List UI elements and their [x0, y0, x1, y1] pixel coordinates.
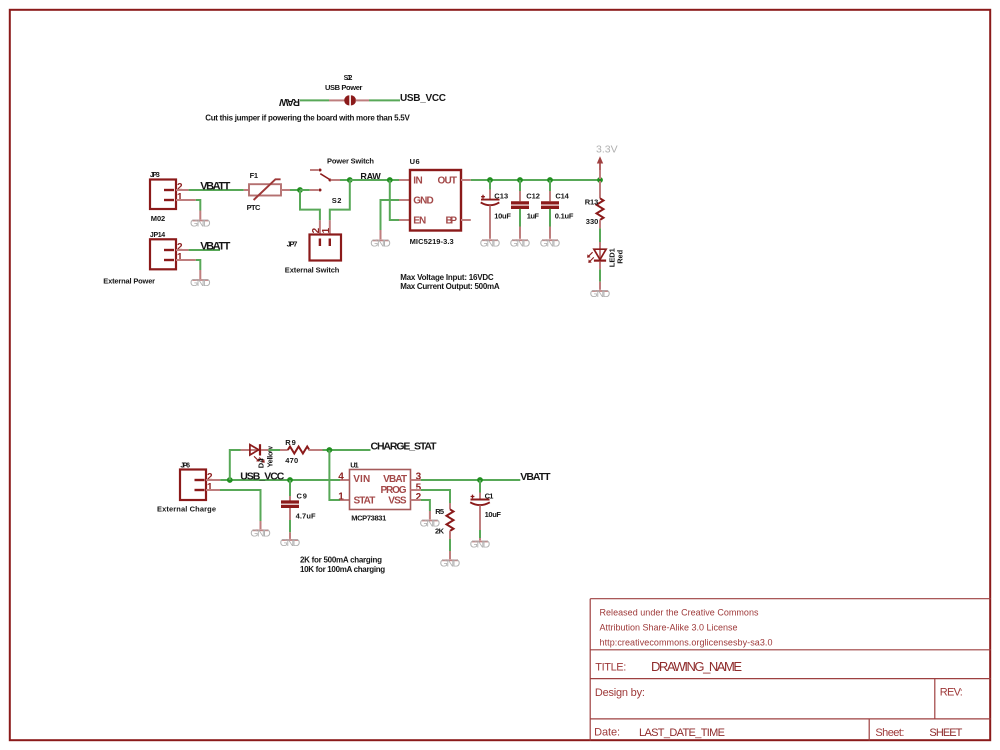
- wire VSS to gnd: [421, 500, 430, 511]
- svg-text:10K for 100mA charging: 10K for 100mA charging: [300, 565, 385, 574]
- pin JP7-1: [329, 220, 331, 234]
- svg-text:VSS: VSS: [388, 495, 407, 506]
- pin U6 GND: [399, 199, 410, 201]
- svg-text:330: 330: [586, 217, 599, 226]
- svg-text:4.7uF: 4.7uF: [296, 512, 316, 521]
- svg-text:JP7: JP7: [287, 240, 298, 249]
- junction C14: [547, 177, 553, 183]
- wire JP14-1 to gnd: [196, 260, 201, 270]
- svg-text:1: 1: [207, 482, 213, 493]
- wire VBATT stub: [189, 249, 220, 251]
- LED LED1: [587, 248, 624, 267]
- connector JP7: [285, 227, 341, 274]
- svg-text:470: 470: [285, 456, 298, 465]
- svg-text:JP3: JP3: [150, 172, 160, 179]
- svg-text:1: 1: [177, 252, 183, 263]
- connector JP6: [157, 462, 216, 513]
- capacitor C14: [541, 180, 574, 239]
- svg-text:VBATT: VBATT: [200, 240, 230, 252]
- svg-text:U6: U6: [410, 157, 420, 166]
- wire junction to JP7 pin1: [330, 180, 350, 220]
- svg-text:MIC5219-3.3: MIC5219-3.3: [410, 237, 454, 246]
- svg-text:MCP73831: MCP73831: [351, 513, 386, 522]
- svg-text:CHARGE_STAT: CHARGE_STAT: [371, 441, 438, 453]
- capacitor C12: [511, 180, 540, 239]
- wire R13 to LED1: [599, 228, 601, 242]
- jumper SJ2 pin 1: [329, 99, 345, 101]
- junction C12: [517, 177, 523, 183]
- ground C12: [510, 237, 531, 249]
- svg-text:Sheet:: Sheet:: [875, 727, 904, 739]
- svg-text:IN: IN: [413, 175, 423, 186]
- wire JP3-1 to gnd: [196, 200, 201, 211]
- wire VBATT out: [421, 479, 521, 481]
- switch S2: [310, 156, 375, 205]
- junction CHARGE_STAT: [327, 447, 333, 453]
- pin U6 OUT: [461, 179, 471, 181]
- svg-text:LAST_DATE_TIME: LAST_DATE_TIME: [639, 727, 725, 739]
- pin U6 EN: [399, 219, 410, 221]
- svg-text:C13: C13: [494, 192, 508, 201]
- wire RAW to SJ2: [300, 99, 329, 101]
- svg-text:RAW: RAW: [278, 96, 300, 107]
- svg-text:2K for 500mA charging: 2K for 500mA charging: [300, 555, 382, 564]
- wire down to STAT: [329, 450, 340, 500]
- pin U1 VSS stub: [411, 499, 421, 501]
- wire SJ2 to USB_VCC: [369, 99, 400, 101]
- svg-text:D4: D4: [257, 457, 266, 468]
- svg-text:1: 1: [338, 492, 344, 503]
- svg-text:USB_VCC: USB_VCC: [240, 470, 285, 482]
- ground JP6: [250, 527, 271, 539]
- svg-text:R13: R13: [585, 198, 599, 207]
- svg-text:3.3V: 3.3V: [596, 144, 618, 156]
- svg-text:0.1uF: 0.1uF: [555, 211, 574, 220]
- wire VBATT: [189, 189, 244, 191]
- svg-text:C1: C1: [485, 492, 494, 501]
- svg-text:External Power: External Power: [103, 276, 155, 285]
- capacitor C13: [481, 180, 512, 239]
- capacitor C1: [470, 480, 501, 540]
- svg-text:OUT: OUT: [438, 175, 458, 186]
- ground LED1: [590, 288, 611, 300]
- svg-text:Date:: Date:: [594, 727, 620, 739]
- pin U6 BP: [461, 219, 471, 221]
- pin JP7-2: [319, 220, 321, 234]
- svg-text:External Charge: External Charge: [157, 505, 216, 514]
- svg-text:DRAWING_NAME: DRAWING_NAME: [651, 659, 742, 674]
- fuse F1 PTC: [244, 171, 290, 212]
- ground C14: [540, 237, 561, 249]
- wire JP6-1 to gnd: [220, 490, 261, 521]
- svg-text:GND: GND: [413, 195, 434, 206]
- junction R13: [597, 177, 603, 183]
- svg-text:1uF: 1uF: [527, 211, 540, 220]
- ground JP14: [190, 277, 211, 289]
- pin U1 PROG stub: [411, 489, 421, 491]
- junction C9: [287, 477, 293, 483]
- svg-text:Attribution Share-Alike 3.0 Li: Attribution Share-Alike 3.0 License: [600, 623, 738, 633]
- svg-text:R9: R9: [285, 438, 296, 447]
- svg-text:External Switch: External Switch: [285, 266, 340, 275]
- wire junction to JP7 pin2: [300, 190, 320, 220]
- svg-text:U1: U1: [350, 461, 358, 470]
- svg-text:USB Power: USB Power: [325, 83, 362, 92]
- svg-text:10uF: 10uF: [494, 211, 511, 220]
- pin JP6-2: [206, 479, 220, 481]
- wire R9 to junction: [323, 449, 371, 451]
- svg-text:TITLE:: TITLE:: [595, 661, 626, 673]
- svg-text:JP14: JP14: [150, 232, 165, 239]
- svg-text:Cut this jumper if powering th: Cut this jumper if powering the board wi…: [205, 113, 410, 122]
- wire RAW rail: [350, 179, 399, 181]
- pin JP14-1: [176, 259, 196, 261]
- svg-text:C9: C9: [297, 492, 307, 501]
- ground C9: [280, 537, 301, 549]
- svg-text:C14: C14: [555, 191, 569, 200]
- capacitor C9: [281, 480, 316, 539]
- svg-text:VBATT: VBATT: [200, 180, 230, 192]
- svg-text:Design by:: Design by:: [595, 687, 645, 699]
- wire D4 to R9: [269, 449, 281, 451]
- wire EN branch: [390, 180, 399, 220]
- IC U1 MCP73831: [338, 461, 421, 523]
- svg-text:VIN: VIN: [353, 474, 370, 485]
- wire R5 to gnd: [449, 539, 451, 551]
- junction RAW right: [387, 177, 393, 183]
- junction C1: [477, 477, 483, 483]
- svg-text:1: 1: [321, 227, 332, 233]
- svg-text:Released under the Creative Co: Released under the Creative Commons: [600, 608, 760, 618]
- svg-text:JP6: JP6: [180, 462, 190, 469]
- wire 3.3V rail: [471, 179, 600, 181]
- svg-text:Red: Red: [616, 249, 625, 263]
- svg-text:F1: F1: [250, 171, 258, 180]
- svg-text:4: 4: [338, 472, 344, 483]
- wire up to D4: [230, 450, 241, 480]
- svg-text:PTC: PTC: [247, 203, 261, 212]
- ground R5: [440, 557, 461, 569]
- wire to S2 throw: [300, 189, 310, 191]
- jumper SJ2 pin 2: [356, 99, 369, 101]
- svg-text:VBATT: VBATT: [520, 471, 551, 483]
- pin JP3-2: [176, 189, 189, 191]
- resistor R13: [585, 181, 604, 228]
- pin JP6-1: [206, 489, 220, 491]
- svg-text:Max Current Output: 500mA: Max Current Output: 500mA: [400, 282, 500, 291]
- wire F1 to node: [290, 189, 300, 191]
- svg-text:SJ2: SJ2: [344, 75, 353, 82]
- svg-text:R5: R5: [435, 507, 444, 516]
- wire S2 to RAW: [340, 179, 350, 181]
- jumper SJ2 pads: [344, 95, 349, 105]
- svg-text:REV:: REV:: [940, 686, 963, 698]
- ground U1 VSS: [420, 518, 441, 530]
- svg-text:2K: 2K: [435, 527, 445, 536]
- title block frame: [590, 599, 991, 741]
- resistor R9: [280, 438, 323, 465]
- pin U1 VIN stub: [340, 479, 350, 481]
- wire GND pin branch: [381, 200, 400, 230]
- op-amp U6 MIC5219: [410, 157, 461, 246]
- svg-text:Power Switch: Power Switch: [327, 156, 374, 165]
- svg-text:M02: M02: [151, 214, 165, 223]
- ground C1: [470, 539, 491, 551]
- pin U6 IN: [399, 179, 410, 181]
- connector JP14: [150, 232, 183, 269]
- svg-text:BP: BP: [446, 215, 458, 226]
- junction RAW left: [347, 177, 353, 183]
- junction JP6: [227, 477, 233, 483]
- svg-text:http:creativecommons.orglicens: http:creativecommons.orglicensesby-sa3.0: [600, 638, 773, 648]
- pin U1 VBAT stub: [411, 479, 421, 481]
- pin JP3-1: [176, 199, 196, 201]
- ground U6: [370, 238, 391, 250]
- pin JP14-2: [176, 249, 189, 251]
- svg-text:PROG: PROG: [381, 485, 407, 496]
- svg-text:SHEET: SHEET: [929, 727, 962, 739]
- svg-text:VBAT: VBAT: [383, 474, 407, 485]
- wire PROG to R5: [421, 490, 450, 503]
- connector JP3: [150, 172, 183, 223]
- pin U1 STAT stub: [340, 499, 350, 501]
- wire USB_VCC run: [220, 479, 340, 481]
- wire LED1 to gnd: [599, 262, 601, 270]
- junction C13: [487, 177, 493, 183]
- svg-text:C12: C12: [526, 191, 540, 200]
- ground C13: [480, 237, 501, 249]
- junction F1/S2: [297, 187, 303, 193]
- ground JP3: [190, 218, 211, 230]
- svg-text:USB_VCC: USB_VCC: [400, 93, 446, 104]
- svg-text:2: 2: [416, 492, 422, 503]
- svg-text:STAT: STAT: [354, 495, 376, 506]
- svg-text:EN: EN: [413, 215, 426, 226]
- svg-text:1: 1: [177, 192, 183, 203]
- supply 3.3V: [596, 144, 618, 179]
- diode D4: [241, 444, 275, 468]
- svg-text:S2: S2: [332, 196, 342, 205]
- resistor R5: [435, 503, 454, 539]
- svg-text:10uF: 10uF: [485, 510, 502, 519]
